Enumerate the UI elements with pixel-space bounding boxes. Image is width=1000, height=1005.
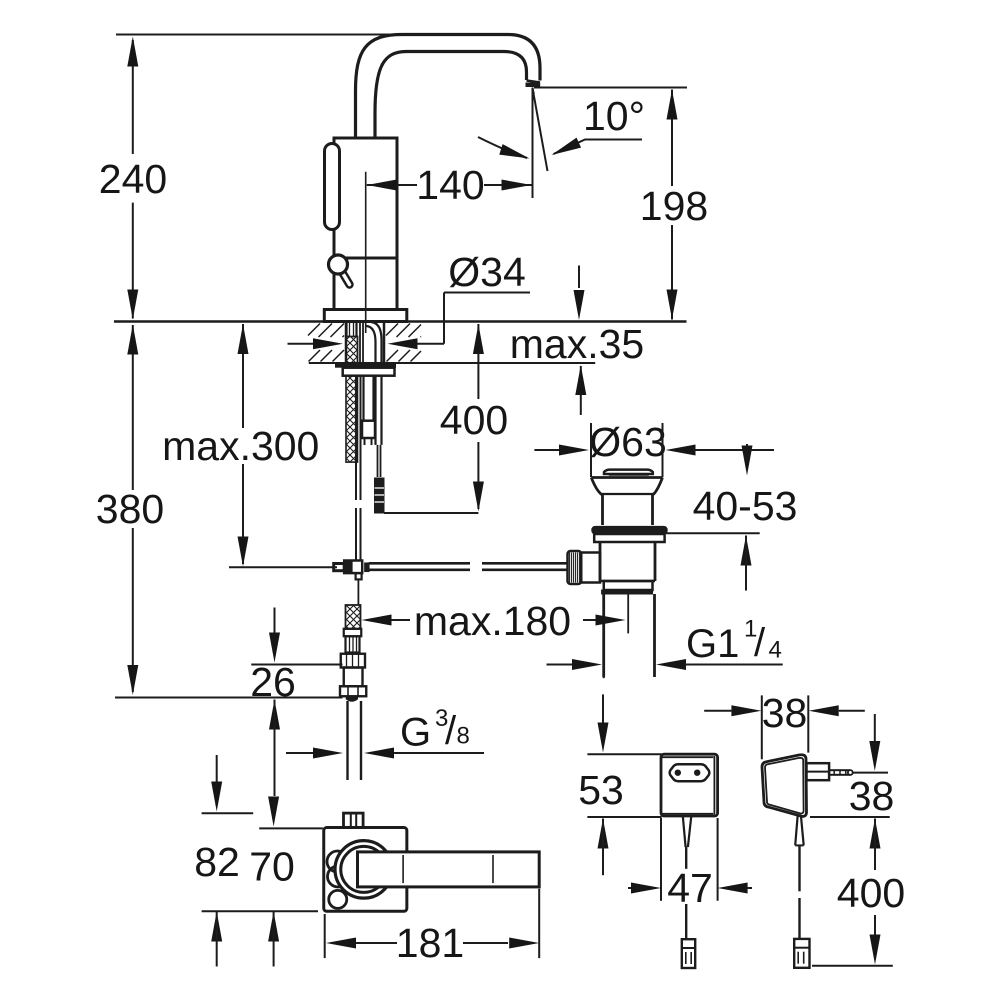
svg-text:10°: 10° xyxy=(583,93,645,139)
svg-text:max.35: max.35 xyxy=(510,321,644,367)
svg-text:/: / xyxy=(445,709,457,753)
svg-text:max.300: max.300 xyxy=(162,423,319,469)
svg-text:26: 26 xyxy=(250,659,296,705)
svg-text:82: 82 xyxy=(194,839,240,885)
svg-text:4: 4 xyxy=(769,637,782,664)
svg-text:47: 47 xyxy=(667,865,713,911)
svg-text:198: 198 xyxy=(640,183,708,229)
svg-text:8: 8 xyxy=(457,723,470,750)
svg-text:380: 380 xyxy=(96,486,164,532)
svg-text:G1: G1 xyxy=(686,622,739,666)
svg-text:38: 38 xyxy=(849,773,895,819)
svg-text:181: 181 xyxy=(396,920,464,966)
svg-text:max.180: max.180 xyxy=(414,598,571,644)
svg-text:Ø34: Ø34 xyxy=(448,249,526,295)
svg-text:G: G xyxy=(400,711,431,755)
svg-text:40-53: 40-53 xyxy=(693,483,798,529)
svg-text:38: 38 xyxy=(762,690,808,736)
svg-text:Ø63: Ø63 xyxy=(589,419,667,465)
svg-text:70: 70 xyxy=(249,844,295,890)
svg-text:400: 400 xyxy=(837,870,905,916)
svg-text:140: 140 xyxy=(416,162,484,208)
svg-text:53: 53 xyxy=(578,767,624,813)
svg-text:240: 240 xyxy=(99,156,167,202)
svg-text:/: / xyxy=(754,621,766,665)
svg-text:400: 400 xyxy=(440,397,508,443)
